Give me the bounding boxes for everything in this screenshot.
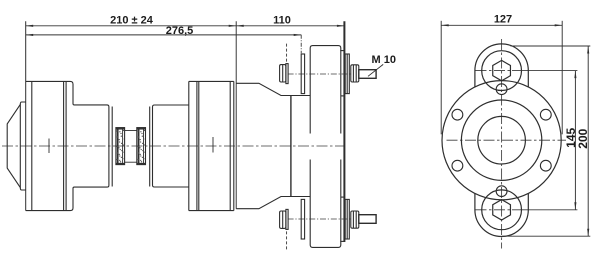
bolt hole lower left [452, 160, 463, 171]
flange plate right face / extension [343, 21, 345, 242]
bolt washer [286, 64, 288, 84]
extension line left face [25, 21, 27, 210]
extension 127 right [561, 21, 563, 135]
rubber bushing body and boss sides [310, 46, 341, 134]
center mark tick left hub [48, 139, 50, 154]
arrow 110 right [337, 25, 345, 27]
stud axis extension dash-dot [300, 35, 302, 53]
bottom lug inner circle [482, 190, 522, 230]
extension 200 bottom [502, 235, 590, 237]
flange outer circle [442, 81, 561, 200]
barrel right edge b [233, 81, 235, 210]
hub disc right face b [198, 81, 200, 210]
center mark tick middle [212, 137, 214, 153]
svg-text:276,5: 276,5 [166, 25, 194, 37]
svg-text:200: 200 [576, 128, 590, 148]
dim line 127 [441, 24, 562, 26]
arrow 276,5 left [26, 34, 34, 36]
left hub drum outline [26, 81, 109, 210]
arrow 145 bottom [574, 202, 576, 210]
hub disc left face [188, 81, 190, 210]
rubber stipple dots [116, 130, 145, 163]
arrow 200 bottom [587, 229, 589, 237]
arrow 127 right [555, 24, 563, 26]
bushing left plate [301, 54, 304, 94]
bolt axis dash-dot [288, 73, 351, 75]
flange boss circle [461, 100, 541, 180]
dim line 276,5 [26, 34, 302, 36]
dim line 210±24 [26, 25, 237, 27]
nut facet b [355, 65, 357, 82]
M10 leader line [368, 64, 383, 76]
drum right face line b [65, 81, 67, 210]
mounting face edge / extension [235, 21, 237, 208]
arrow 210 right [229, 25, 237, 27]
svg-text:M 10: M 10 [372, 54, 396, 66]
dim line 110 [236, 25, 344, 27]
left tapered stub outline [7, 102, 26, 190]
flange bore circle [478, 116, 526, 164]
stud end M10 [359, 70, 376, 79]
dim line 145 [574, 71, 576, 210]
arrow 127 left [441, 24, 449, 26]
top lug center extension [512, 70, 577, 72]
hub disc bottom edge [189, 210, 234, 212]
barrel right edge a [229, 81, 231, 210]
bottom mount bolt assembly (mirror) [280, 160, 376, 250]
rubber element right bar [137, 128, 146, 165]
bottom lug center extension [512, 209, 577, 211]
dimensions right view [441, 21, 590, 236]
flange vertical centerline [501, 39, 503, 249]
extension 200 top [511, 45, 591, 47]
side view centerline [2, 145, 345, 147]
flange horizontal centerline [447, 139, 567, 141]
top lug outer arc [475, 44, 528, 87]
top mount bolt assembly [280, 44, 376, 134]
bolt hole top [496, 84, 507, 95]
hub disc top edge [189, 80, 234, 82]
hidden edge dashed [286, 44, 288, 63]
flange plate left face [290, 96, 292, 197]
svg-text:110: 110 [273, 14, 291, 26]
bushing right edge stub [341, 95, 345, 97]
arrow 145 top [574, 71, 576, 79]
bolt hole bottom [496, 186, 507, 197]
top lug inner circle [482, 51, 522, 91]
top lug centerline [476, 70, 513, 72]
bolt head M10 [280, 65, 286, 82]
arrow 276,5 right [294, 34, 302, 36]
bolt head facet [282, 65, 284, 82]
flange plate top edge [340, 50, 344, 52]
top lug hex nut [493, 60, 511, 80]
hub disc right face a [196, 81, 198, 210]
drum right face line a [63, 81, 65, 210]
drum left lip line [31, 81, 33, 210]
outer drum top edge [236, 83, 310, 95]
bottom lug centerline [476, 209, 513, 211]
dim line 200 [587, 46, 589, 236]
right clamp ring inner face [149, 107, 151, 187]
svg-text:127: 127 [494, 14, 512, 26]
outer drum bottom edge [236, 197, 310, 209]
arrow 200 top [587, 46, 589, 54]
bushing right washer inner line [346, 54, 348, 94]
arrow 110 left [236, 25, 244, 27]
stud nut [351, 65, 359, 82]
bushing right washer [345, 54, 349, 94]
bolt hole upper right [540, 109, 551, 120]
bottom lug hex nut [493, 200, 511, 220]
svg-text:210 ± 24: 210 ± 24 [110, 15, 154, 27]
bolt hole upper left [452, 109, 463, 120]
element gap lower connector [125, 161, 137, 163]
rubber element left bar [116, 128, 125, 165]
left stub base edge [19, 104, 21, 187]
arrow 210 left [26, 25, 34, 27]
left clamp ring inner face [111, 107, 113, 187]
flange plate bottom edge [340, 240, 344, 242]
element gap upper connector [125, 130, 137, 132]
bottom lug outer arc [475, 194, 528, 237]
nut facet a [352, 65, 354, 82]
right clamp ring outer face [153, 105, 189, 187]
bolt hole lower right [540, 160, 551, 171]
extension 127 left [440, 21, 442, 135]
